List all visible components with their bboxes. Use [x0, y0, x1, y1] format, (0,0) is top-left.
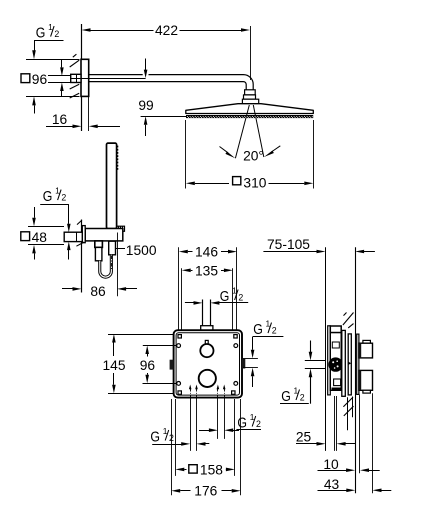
label G1/2 side view	[280, 341, 325, 405]
corner screws	[178, 335, 237, 395]
dimension 176	[171, 399, 241, 499]
inlet nipple G1/2	[71, 74, 81, 82]
svg-text:16: 16	[52, 112, 68, 127]
dimension 146	[179, 245, 238, 331]
spray angle lines 20 deg	[235, 105, 263, 158]
left outlet nub	[170, 360, 174, 370]
rough-in box outer	[174, 330, 242, 397]
label 1500 hose length	[116, 243, 157, 258]
svg-text:146: 146	[195, 245, 218, 260]
label G1/2 hand shower	[40, 186, 70, 260]
dimension 25	[296, 429, 355, 445]
svg-text:1500: 1500	[126, 243, 157, 258]
spray face band	[186, 115, 313, 118]
extension lines below side body	[335, 393, 373, 493]
dimension square 158	[175, 399, 235, 477]
main body side	[330, 333, 341, 391]
dimension 10	[318, 457, 380, 472]
dimension 86	[62, 233, 137, 299]
holder arm	[85, 229, 123, 241]
fixing hatch marks bracket	[76, 220, 84, 246]
behind-wall plate	[357, 334, 359, 394]
wall hatch below body	[343, 397, 353, 416]
dimension 75-105	[263, 237, 375, 254]
svg-text:48: 48	[32, 230, 48, 245]
cartridge circle side	[328, 357, 342, 371]
bracket inlet nipple	[64, 232, 82, 241]
seal plate side	[348, 334, 351, 395]
svg-text:75-105: 75-105	[267, 237, 310, 252]
dimension 43	[318, 477, 392, 492]
dimension 145	[102, 334, 173, 394]
svg-text:10: 10	[323, 457, 339, 472]
svg-text:25: 25	[296, 429, 312, 444]
label G1/2 top pipe	[185, 286, 248, 305]
hose connector right	[109, 241, 116, 255]
fixing hatch marks on wall plate	[70, 54, 80, 98]
hose connector left	[95, 241, 103, 261]
svg-text:96: 96	[140, 358, 156, 373]
finished wall line	[355, 247, 357, 493]
svg-text:135: 135	[195, 263, 218, 278]
label G1/2 right nub	[243, 319, 284, 387]
top tab side	[330, 326, 341, 333]
label G1/2 top left	[34, 22, 64, 41]
svg-text:99: 99	[138, 98, 154, 113]
box front plane line	[325, 247, 327, 451]
flow arrow marker	[348, 362, 351, 366]
dimension 422	[82, 23, 251, 80]
svg-text:310: 310	[243, 176, 266, 191]
dimension square 96	[21, 41, 80, 114]
mounting flange side	[342, 330, 346, 396]
hand shower stick	[107, 143, 119, 229]
front plate side	[328, 326, 331, 395]
dimension 135	[182, 263, 233, 330]
mounting holes	[177, 344, 238, 386]
svg-text:145: 145	[102, 358, 125, 373]
shower hose U loop	[100, 255, 112, 277]
bottom ports dash-dot with arrows	[191, 389, 225, 451]
svg-text:43: 43	[324, 477, 340, 492]
lower connection block	[359, 370, 373, 393]
shower arm tube	[89, 78, 250, 91]
holder knurl	[117, 226, 125, 231]
shower head body	[186, 104, 313, 114]
svg-text:422: 422	[155, 23, 178, 38]
svg-text:20°: 20°	[243, 148, 264, 163]
dimension 96 box	[140, 346, 176, 384]
wire wall line top	[81, 24, 83, 131]
wire wall line hand shower	[81, 220, 83, 293]
arm centre line (99 reference)	[71, 78, 146, 80]
lower control circle	[199, 370, 216, 387]
svg-text:86: 86	[90, 284, 106, 299]
wall hatch above body	[343, 313, 354, 328]
dimension square 48	[21, 207, 64, 260]
label G1/2 bottom left port	[150, 426, 209, 446]
upper connection block	[359, 340, 373, 358]
dimension 99	[138, 59, 186, 137]
svg-text:176: 176	[194, 484, 217, 499]
angle dimension 20 deg	[220, 146, 281, 164]
dimension nipple thread	[48, 59, 71, 96]
bracket wall plate	[82, 226, 85, 243]
union nut stack at elbow	[242, 90, 258, 104]
dimension square 310	[186, 120, 314, 191]
svg-text:96: 96	[32, 72, 48, 87]
dimension 16	[46, 96, 120, 131]
top supply pipe	[201, 300, 213, 331]
wall plate escutcheon	[81, 59, 89, 96]
label G1/2 bottom right port	[199, 412, 261, 432]
upper control circle	[200, 340, 213, 357]
rough-in box inner	[176, 333, 239, 395]
svg-text:158: 158	[200, 462, 223, 477]
right outlet nub	[242, 359, 245, 369]
